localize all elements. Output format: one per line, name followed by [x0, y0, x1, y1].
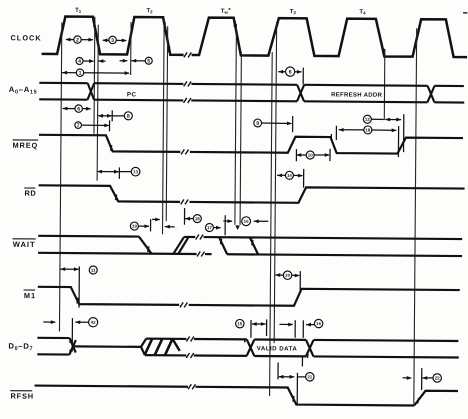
measurement circle 3 clock low width — [103, 39, 109, 41]
WAIT close slant left — [139, 237, 152, 254]
svg-text:M1: M1 — [24, 291, 36, 300]
vertical reference line pair from T2 falling edge — [163, 21, 165, 234]
measurement circle 1 clock period — [62, 71, 67, 75]
address bus PC section rails — [94, 82, 183, 85]
RFSH rise tick — [418, 398, 419, 404]
svg-text:VALID DATA: VALID DATA — [257, 345, 298, 352]
clock waveform Tw-T4 and next cycle — [192, 17, 468, 57]
data bus rails after valid data — [314, 340, 459, 341]
M1 waveform right — [189, 288, 460, 307]
measurement circle 12 MREQ rise from T4 fall — [371, 118, 383, 120]
RD fall tick — [116, 194, 117, 200]
measurement circle 5 clock rise time — [120, 60, 128, 62]
measurement bars for circle 10 — [295, 149, 297, 161]
WAIT close slant at T3 — [250, 237, 259, 254]
svg-text:T3: T3 — [290, 9, 297, 15]
svg-text:RD: RD — [24, 189, 36, 198]
measurement circle 15 data setup — [250, 320, 252, 338]
measurement bar for circle 9 — [292, 116, 294, 132]
measurement circle 42 data float delay — [43, 321, 55, 323]
M1 waveform left — [38, 287, 180, 305]
measurement circle 19 WAIT fall — [139, 225, 149, 227]
measurement circle 4 clock fall time — [83, 60, 94, 62]
svg-text:22: 22 — [435, 376, 440, 381]
svg-text:4: 4 — [78, 59, 81, 65]
M1 fall tick — [77, 298, 78, 304]
measurement circle 21 RFSH fall delay — [277, 363, 279, 380]
WAIT lower rail — [38, 253, 196, 254]
WAIT upper rail left — [38, 235, 139, 238]
tick above MREQ refresh fall — [330, 134, 332, 140]
svg-text:21: 21 — [307, 374, 312, 379]
svg-text:15: 15 — [237, 321, 242, 326]
address bus crossover X1 — [88, 83, 95, 100]
svg-text:18: 18 — [365, 128, 370, 133]
wait sample arrow pointing down at Tw fall — [235, 225, 240, 230]
address bus break marks — [184, 81, 187, 86]
RD waveform left — [38, 185, 180, 202]
svg-text:16: 16 — [244, 219, 249, 224]
RFSH fall tick — [293, 396, 294, 402]
MREQ waveform refresh section — [190, 136, 463, 154]
measurement circle 16 WAIT setup to Tw fall — [223, 220, 232, 222]
vertical reference line from T4 falling edge — [383, 49, 386, 120]
svg-text:16: 16 — [316, 321, 321, 326]
RD break marks — [181, 199, 184, 204]
svg-text:19: 19 — [132, 224, 137, 229]
RFSH break marks — [188, 384, 191, 389]
WAIT close slant at Tw sample — [219, 237, 227, 254]
measurement circle 18 MREQ low width — [339, 128, 344, 132]
address bus rails after X3 — [435, 85, 464, 87]
svg-text:REFRESH ADDR: REFRESH ADDR — [331, 92, 382, 98]
address bus rails before crossover — [39, 82, 87, 84]
measurement circle 20 M1 rise delay — [275, 273, 280, 277]
svg-text:12: 12 — [365, 117, 370, 122]
svg-text:9: 9 — [256, 121, 259, 127]
measurement circle 13 RD fall delay — [97, 171, 118, 173]
vertical reference line from T1 rising edge — [59, 22, 61, 331]
svg-text:3: 3 — [111, 38, 114, 44]
RD waveform right — [189, 186, 464, 204]
RFSH rise and high right — [414, 391, 458, 406]
data bus drive burst hatching — [141, 339, 146, 347]
svg-text:1: 1 — [79, 71, 82, 77]
data bus float crossover X1 — [69, 338, 75, 353]
svg-text:8: 8 — [127, 114, 130, 120]
address bus REFRESH ADDR section rails — [304, 84, 427, 87]
data bus rails before float — [37, 337, 69, 339]
vertical reference line from T1 falling edge start — [93, 17, 96, 134]
svg-text:T1: T1 — [75, 8, 82, 14]
WAIT opening double slants — [173, 237, 184, 254]
svg-text:MREQ: MREQ — [13, 141, 39, 150]
svg-text:RFSH: RFSH — [11, 391, 34, 400]
WAIT lower rail break marks — [197, 252, 200, 257]
measurement circle 22 RFSH rise delay — [403, 377, 412, 379]
valid data cell rails — [254, 338, 306, 341]
measurement circle 8 MREQ fall delay — [98, 115, 112, 117]
measurement circle 7 MREQ delay from clock — [81, 124, 108, 126]
svg-text:CLOCK: CLOCK — [10, 33, 41, 42]
vertical reference line from next T1 rising edge — [414, 28, 417, 404]
address bus crossover X2 — [297, 85, 304, 102]
svg-text:10: 10 — [308, 153, 313, 158]
data bus rails after burst — [146, 338, 186, 341]
clock edge tick marks — [63, 21, 64, 27]
RFSH waveform high left — [35, 386, 188, 387]
WAIT upper rail right — [184, 236, 195, 238]
svg-text:7: 7 — [77, 123, 80, 129]
MREQ break marks — [181, 149, 184, 154]
measurement circle 6b refresh address delay — [278, 70, 283, 74]
measurement circle 17 WAIT hold — [214, 227, 221, 229]
clock waveform T1-T4 — [42, 16, 184, 55]
svg-text:2: 2 — [76, 37, 79, 43]
MREQ waveform left — [39, 135, 181, 152]
data bus break marks — [186, 336, 189, 341]
valid data crossover X3 — [306, 340, 314, 357]
svg-text:42: 42 — [91, 320, 96, 325]
WAIT hold arrow from T2 fall line — [165, 225, 170, 229]
svg-text:18: 18 — [195, 216, 200, 221]
svg-text:6: 6 — [77, 106, 80, 112]
data bus rails to valid data — [194, 338, 247, 341]
data bus tri-state center line — [75, 345, 141, 348]
WAIT setup arrow into T2 fall line — [152, 218, 160, 220]
svg-text:11: 11 — [91, 268, 96, 273]
vertical reference line pair from T3 rising edge — [270, 52, 273, 396]
svg-text:WAIT: WAIT — [13, 240, 36, 249]
stray mark top right corner — [463, 12, 467, 14]
measurement bar for circle 12 — [403, 114, 405, 152]
svg-text:PC: PC — [127, 91, 137, 98]
valid data crossover X2 — [247, 339, 255, 356]
measurement circle 6 address delay — [62, 107, 67, 111]
clock low break marks — [184, 52, 187, 57]
MREQ fall tick — [111, 145, 112, 151]
address bus rails continuing to refresh crossover — [191, 83, 297, 86]
measurement circle 11 M1 delay — [60, 268, 78, 270]
vertical reference line from T1 falling edge end — [97, 25, 98, 181]
measurement bars for circle 18 — [335, 126, 337, 140]
svg-text:T2: T2 — [146, 8, 153, 14]
measurement bar for circle 14 — [303, 169, 305, 188]
measurement circle 18b WAIT — [183, 208, 185, 225]
measurement circle 2 clock high width — [66, 39, 74, 41]
measurement circle 16b data hold — [280, 323, 293, 325]
svg-text:20: 20 — [285, 273, 290, 278]
svg-text:6: 6 — [289, 70, 292, 76]
RFSH waveform fall and low — [195, 387, 414, 406]
svg-text:T4: T4 — [359, 9, 366, 15]
measurement circle 9 MREQ rise delay — [262, 122, 292, 124]
M1 break marks — [180, 302, 183, 307]
measurement circle 14 RD rise delay — [277, 173, 282, 177]
svg-text:13: 13 — [133, 169, 138, 174]
vertical reference line pair from Tw falling edge — [235, 24, 237, 225]
measurement bar for circle 7 — [108, 120, 110, 131]
address bus crossover X3 — [427, 86, 434, 103]
measurement bar for circle 6b — [302, 68, 304, 85]
measurement circle 10 MREQ high width — [296, 153, 301, 157]
svg-text:14: 14 — [287, 173, 292, 178]
vertical reference line from T2 rising edge — [130, 22, 132, 75]
svg-text:17: 17 — [207, 225, 212, 230]
svg-text:5: 5 — [147, 59, 150, 65]
